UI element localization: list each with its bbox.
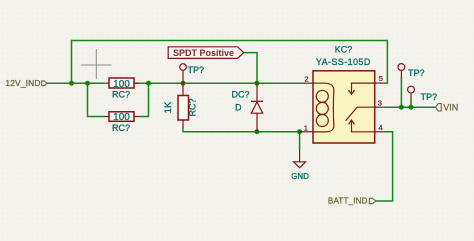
- relay pin 1: [300, 124, 313, 133]
- wire relay pin 4 to BATT_IND: [376, 132, 393, 201]
- svg-text:TP?: TP?: [408, 68, 425, 78]
- svg-text:RC?: RC?: [188, 98, 198, 116]
- svg-text:2: 2: [304, 75, 308, 84]
- svg-text:1: 1: [304, 124, 308, 133]
- svg-text:100: 100: [113, 112, 130, 123]
- global label SPDT Positive: [168, 47, 244, 59]
- ground GND: [291, 150, 309, 181]
- resistor RC? 100 upper: [104, 78, 139, 99]
- relay pin 3: [375, 98, 384, 107]
- svg-text:BATT_IND: BATT_IND: [328, 197, 368, 206]
- resistor RC? 1K: [163, 83, 198, 127]
- svg-text:1K: 1K: [163, 101, 174, 113]
- resistor RC? 100 lower: [104, 112, 139, 133]
- svg-text:KC?: KC?: [335, 45, 353, 55]
- svg-text:TP?: TP?: [188, 65, 205, 75]
- wire TP1 lead: [400, 78, 402, 108]
- test point TP? right upper: [398, 64, 425, 79]
- relay pin 4: [375, 123, 384, 132]
- relay switch contacts: [346, 83, 375, 132]
- test point TP? left: [180, 64, 204, 83]
- hierarchical label BATT_IND: [328, 197, 376, 206]
- relay pin 2: [304, 75, 313, 84]
- wire top bypass from node A to relay pin 5: [72, 41, 388, 84]
- svg-text:RC?: RC?: [112, 89, 130, 99]
- junction node at top bypass tap: [69, 81, 74, 86]
- relay coil: [313, 83, 334, 132]
- relay U KC? YA-SS-105D body: [313, 45, 375, 144]
- graphic crosshair lines: [81, 49, 112, 79]
- junction node at TP/1K tap: [181, 81, 186, 86]
- wire SPDT label drop: [244, 53, 257, 84]
- relay pin 5: [375, 74, 384, 83]
- svg-text:100: 100: [113, 79, 130, 90]
- diode DC? D: [232, 83, 264, 132]
- svg-text:DC?: DC?: [232, 89, 250, 99]
- svg-text:5: 5: [379, 74, 383, 83]
- svg-text:TP?: TP?: [421, 92, 438, 102]
- svg-text:YA-SS-105D: YA-SS-105D: [316, 57, 371, 67]
- hierarchical label 12V_IND: [5, 78, 47, 88]
- test point TP? right lower: [408, 86, 437, 102]
- junction node at diode top / SPDT drop: [255, 81, 260, 86]
- wire main row middle to relay pin 2: [134, 82, 305, 84]
- svg-text:D: D: [235, 102, 242, 112]
- junction node at TP1 tap: [399, 105, 404, 110]
- hierarchical label VIN: [435, 103, 458, 113]
- wire relay pin 3 to VIN: [383, 106, 435, 108]
- junction node at lower branch left: [85, 81, 90, 86]
- wire GND drop: [299, 132, 301, 150]
- svg-text:SPDT Positive: SPDT Positive: [173, 48, 234, 58]
- wire lower parallel branch left: [88, 83, 105, 116]
- wire bottom row: [183, 127, 302, 132]
- wire main row left: [47, 82, 104, 84]
- svg-text:3: 3: [378, 98, 382, 107]
- junction node at lower branch right: [146, 81, 151, 86]
- wire TP2 lead: [410, 101, 412, 108]
- svg-text:GND: GND: [291, 172, 309, 181]
- svg-text:RC?: RC?: [112, 123, 130, 133]
- wire lower parallel branch right: [139, 83, 149, 116]
- junction node at diode bottom: [255, 129, 260, 134]
- junction node at relay pin 1 / GND: [297, 129, 302, 134]
- junction node at TP2 tap: [409, 105, 414, 110]
- svg-text:12V_IND: 12V_IND: [5, 78, 40, 88]
- svg-text:VIN: VIN: [443, 103, 458, 113]
- svg-text:4: 4: [379, 123, 383, 132]
